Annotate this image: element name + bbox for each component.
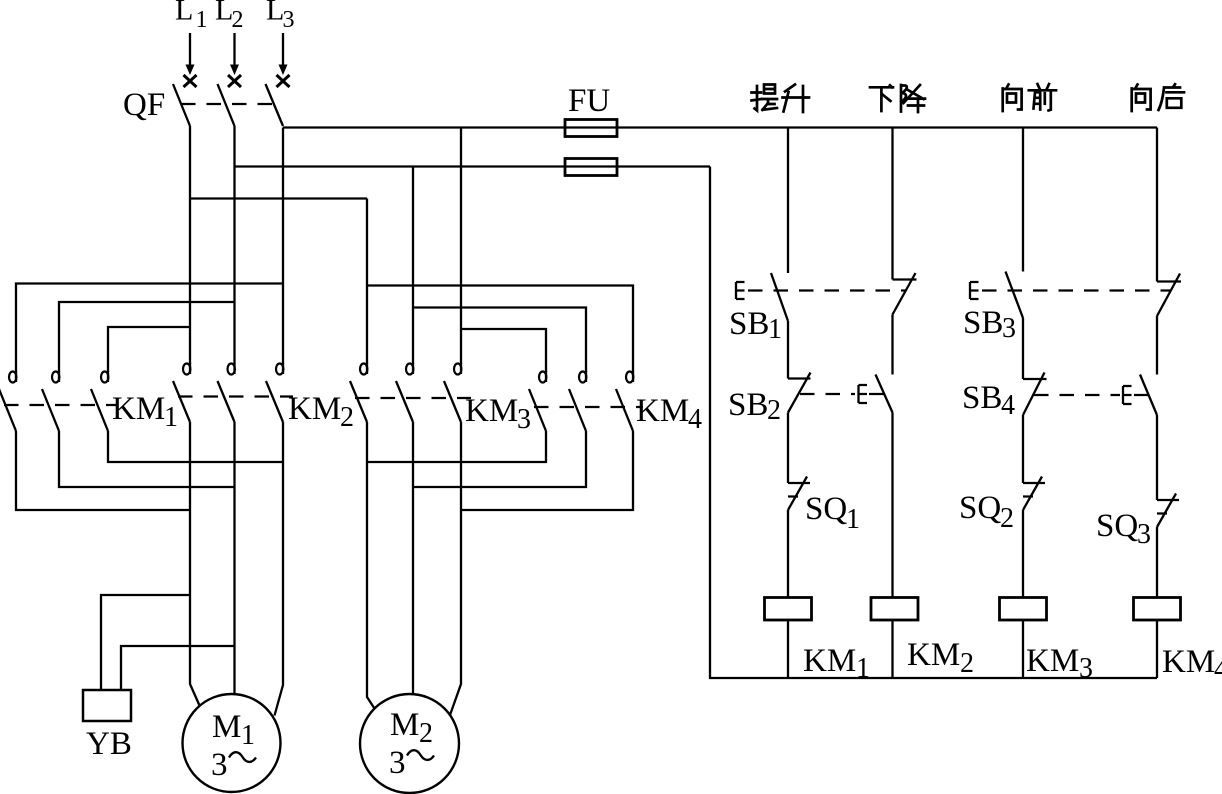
- svg-text:KM: KM: [288, 391, 341, 427]
- svg-text:FU: FU: [568, 83, 610, 119]
- svg-text:2: 2: [232, 7, 244, 33]
- svg-text:M: M: [390, 707, 419, 743]
- svg-text:M: M: [212, 709, 241, 745]
- svg-text:3: 3: [211, 747, 228, 783]
- svg-text:SB: SB: [963, 305, 1003, 341]
- svg-text:QF: QF: [123, 87, 165, 123]
- svg-text:KM: KM: [636, 393, 689, 429]
- svg-text:4: 4: [1001, 390, 1015, 421]
- svg-text:SQ: SQ: [805, 491, 847, 527]
- svg-text:SB: SB: [728, 387, 768, 423]
- svg-text:YB: YB: [86, 726, 132, 762]
- svg-text:1: 1: [241, 720, 255, 751]
- svg-text:1: 1: [856, 653, 870, 684]
- svg-text:SQ: SQ: [1096, 508, 1138, 544]
- svg-text:SB: SB: [962, 380, 1002, 416]
- svg-text:KM: KM: [907, 637, 960, 673]
- svg-text:1: 1: [846, 504, 860, 535]
- svg-text:3: 3: [1137, 519, 1151, 550]
- svg-text:3: 3: [1002, 313, 1016, 344]
- svg-text:1: 1: [768, 314, 782, 345]
- svg-text:KM: KM: [112, 391, 165, 427]
- svg-text:KM: KM: [1162, 644, 1215, 680]
- svg-text:SB: SB: [729, 306, 769, 342]
- svg-text:KM: KM: [803, 643, 856, 679]
- svg-text:2: 2: [419, 718, 433, 749]
- svg-text:4: 4: [1214, 654, 1222, 685]
- svg-text:3: 3: [1079, 653, 1093, 684]
- svg-text:2: 2: [960, 648, 974, 679]
- svg-text:L: L: [175, 0, 193, 27]
- svg-text:3: 3: [389, 745, 406, 781]
- svg-text:KM: KM: [1026, 643, 1079, 679]
- svg-text:SQ: SQ: [959, 490, 1001, 526]
- svg-text:3: 3: [517, 404, 531, 435]
- svg-text:3: 3: [283, 7, 295, 33]
- svg-text:1: 1: [196, 7, 208, 33]
- svg-text:2: 2: [1000, 503, 1014, 534]
- svg-text:1: 1: [164, 402, 178, 433]
- svg-text:KM: KM: [465, 393, 518, 429]
- svg-text:4: 4: [688, 404, 702, 435]
- svg-text:2: 2: [767, 395, 781, 426]
- svg-text:2: 2: [340, 402, 354, 433]
